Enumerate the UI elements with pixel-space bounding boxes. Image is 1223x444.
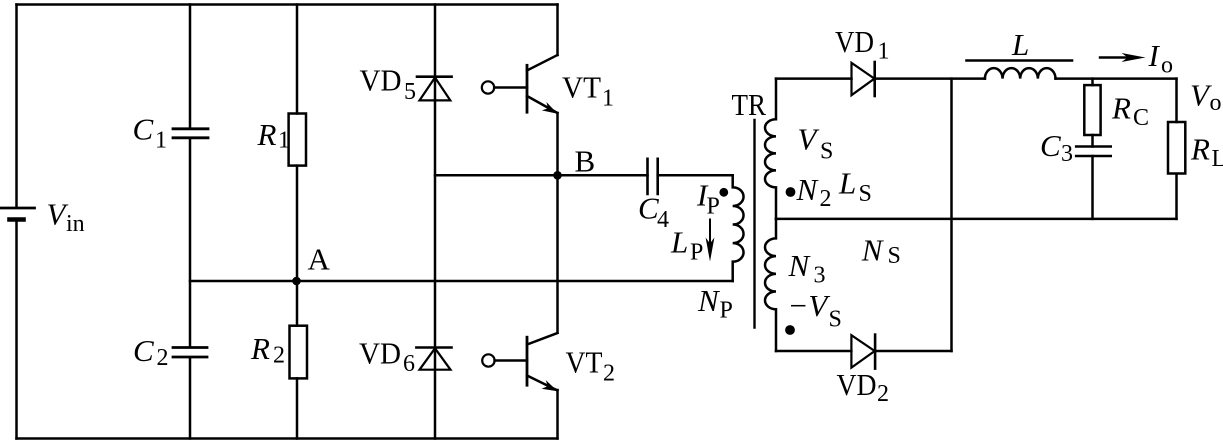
label R2 <box>250 331 285 369</box>
label R1 <box>257 117 291 154</box>
N2 phase dot <box>786 187 796 197</box>
label C3 <box>1040 128 1073 167</box>
svg-text:B: B <box>575 144 596 179</box>
inductor L top bar <box>967 59 1073 62</box>
label RL <box>1190 132 1223 172</box>
resistor R2 <box>290 326 308 379</box>
capacitor C2 <box>173 348 207 358</box>
label Io <box>1148 38 1174 79</box>
label C2 <box>133 333 169 371</box>
svg-text:L: L <box>1212 146 1223 172</box>
svg-text:S: S <box>888 243 901 269</box>
IP arrow (primary current) <box>706 220 715 262</box>
wire: left rail upper segment <box>15 5 18 208</box>
wire: output return rail y=218.9 <box>776 218 1177 221</box>
label RC <box>1111 91 1149 132</box>
label LP <box>670 225 703 266</box>
svg-text:S: S <box>859 181 872 207</box>
label VT2 <box>566 345 616 387</box>
svg-text:2: 2 <box>820 186 832 212</box>
svg-text:VD: VD <box>837 367 877 402</box>
resistor R1 <box>289 114 306 166</box>
wire: rectifier cathode vertical x=951.5 <box>950 79 953 351</box>
label Vo <box>1190 78 1222 117</box>
svg-text:S: S <box>820 139 833 165</box>
svg-text:C: C <box>1133 105 1149 131</box>
transformer primary winding LP <box>733 175 744 281</box>
label VD6 <box>359 336 415 378</box>
svg-text:S: S <box>829 307 842 333</box>
label VS <box>798 122 834 165</box>
svg-text:VT: VT <box>566 345 603 380</box>
wire: from inductor to output corner <box>1056 77 1177 80</box>
wire: node B horizontal line to C4 <box>435 174 733 177</box>
svg-text:L: L <box>1011 27 1029 62</box>
label Vin <box>47 197 85 238</box>
svg-text:P: P <box>690 239 703 265</box>
label IP <box>696 178 720 220</box>
wire: top rail <box>17 3 558 6</box>
svg-text:3: 3 <box>1061 141 1073 167</box>
label N3 <box>788 248 826 289</box>
svg-text:1: 1 <box>155 128 167 154</box>
svg-text:−V: −V <box>788 288 831 323</box>
svg-text:5: 5 <box>404 79 416 105</box>
label C4 <box>638 191 669 234</box>
svg-text:2: 2 <box>603 361 615 387</box>
inductor L <box>985 68 1056 79</box>
diode VD6 <box>416 348 451 370</box>
label NS <box>861 233 901 270</box>
wire: RC/C3 branch x=1092.5 <box>1091 79 1094 219</box>
svg-text:I: I <box>1148 38 1161 73</box>
wire: node A horizontal line y=281 <box>190 280 733 283</box>
svg-text:N: N <box>861 233 885 268</box>
battery Vin short plate <box>10 217 24 222</box>
svg-text:R: R <box>250 331 270 366</box>
svg-text:VD: VD <box>360 63 402 98</box>
svg-text:R: R <box>1111 91 1131 126</box>
resistor RC <box>1084 85 1100 135</box>
wire: secondary top rail y=78.6 <box>776 77 985 80</box>
wire: secondary bottom rail y=351 <box>776 350 952 353</box>
label VD1 <box>835 24 890 65</box>
transistor VT2 <box>482 333 557 391</box>
label -VS <box>788 288 842 333</box>
svg-text:1: 1 <box>278 128 290 154</box>
transistor VT1 <box>482 55 558 114</box>
wire: bottom rail <box>17 437 558 440</box>
label VD5 <box>360 63 417 106</box>
capacitor C4 <box>648 159 658 194</box>
svg-text:o: o <box>1210 90 1222 116</box>
wire: VD5/VD6 branch vertical x=435 <box>434 5 437 439</box>
svg-text:L: L <box>670 225 688 260</box>
svg-text:1: 1 <box>602 86 614 112</box>
label N2 <box>796 172 832 212</box>
node B junction dot <box>553 171 562 180</box>
wire: right output rail x=1176.5 <box>1175 79 1178 219</box>
label VT1 <box>562 70 614 112</box>
svg-text:C: C <box>133 333 154 368</box>
svg-text:TR: TR <box>732 87 767 122</box>
svg-text:1: 1 <box>878 39 890 65</box>
svg-text:P: P <box>707 193 720 219</box>
svg-text:N: N <box>796 172 820 207</box>
svg-text:A: A <box>308 242 331 277</box>
svg-text:R: R <box>257 117 277 152</box>
svg-text:L: L <box>838 166 856 201</box>
battery Vin long plate <box>0 207 35 210</box>
svg-text:N: N <box>697 283 721 318</box>
svg-text:2: 2 <box>273 343 285 369</box>
wire: VT collector/emitter chain x=557.5 <box>556 5 559 439</box>
svg-text:N: N <box>788 248 812 283</box>
wire: C1/C2 branch vertical x=190 <box>189 5 192 439</box>
diode VD2 <box>851 335 875 369</box>
label LS <box>838 166 872 208</box>
svg-text:C: C <box>1040 128 1061 163</box>
svg-text:3: 3 <box>814 263 826 289</box>
node A junction dot <box>292 277 301 286</box>
resistor RL <box>1168 122 1185 174</box>
wire: R1/R2 branch vertical x=297 <box>296 5 299 439</box>
svg-text:C: C <box>133 112 154 147</box>
svg-text:o: o <box>1161 53 1173 79</box>
capacitor C1 <box>173 129 208 138</box>
N3 phase dot <box>785 325 795 335</box>
svg-text:VD: VD <box>835 24 874 59</box>
capacitor C3 <box>1076 147 1111 157</box>
svg-text:P: P <box>720 298 733 324</box>
diode VD5 <box>417 77 452 101</box>
svg-text:4: 4 <box>657 207 669 233</box>
diode VD1 <box>852 62 875 96</box>
Io arrow (output current) <box>1100 53 1146 62</box>
svg-text:6: 6 <box>403 351 415 377</box>
svg-text:VT: VT <box>562 70 601 105</box>
svg-text:VD: VD <box>359 336 401 371</box>
transformer core <box>753 120 755 328</box>
label C1 <box>133 112 168 154</box>
primary phase dot <box>719 188 728 197</box>
svg-text:2: 2 <box>157 345 169 371</box>
transformer secondary winding N3 <box>765 219 776 351</box>
svg-text:2: 2 <box>877 381 889 407</box>
svg-text:C: C <box>638 191 659 226</box>
svg-text:R: R <box>1190 132 1210 167</box>
label VD2 <box>837 367 890 407</box>
svg-text:in: in <box>66 211 85 237</box>
label NP <box>697 283 733 324</box>
svg-text:V: V <box>798 122 820 157</box>
wire: left rail lower segment <box>15 220 18 439</box>
transformer secondary winding N2 <box>765 79 776 219</box>
